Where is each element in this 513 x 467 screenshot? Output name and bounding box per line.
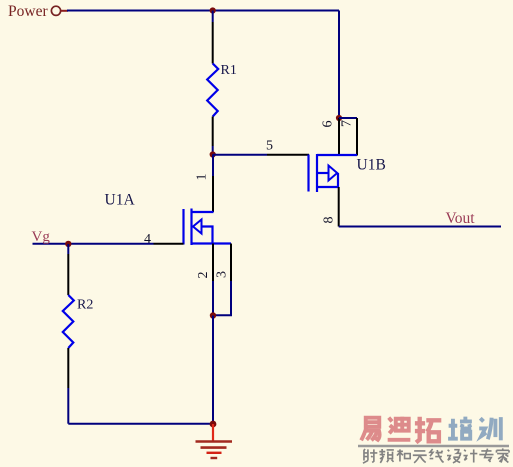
svg-text:Vg: Vg — [32, 229, 51, 245]
watermark logo xun — [479, 417, 501, 440]
transistor U1B source stub top — [317, 154, 357, 156]
wire net 5 — [213, 154, 267, 156]
transistor U1A source stub — [192, 242, 232, 244]
watermark tagline she — [363, 449, 377, 463]
transistor U1B body arrow — [329, 166, 338, 181]
svg-text:3: 3 — [215, 271, 230, 278]
svg-text:1: 1 — [195, 174, 210, 181]
svg-text:7: 7 — [340, 120, 355, 127]
transistor U1A gate bar — [182, 209, 184, 245]
watermark tagline he — [397, 449, 410, 461]
pin 8 U1B drain pin — [338, 187, 340, 227]
wire Vout net — [339, 226, 501, 228]
resistor R2 — [63, 295, 74, 348]
transistor U1A body arrow — [193, 220, 202, 234]
pin 5 U1B gate pin — [267, 154, 309, 156]
svg-text:R1: R1 — [221, 63, 237, 78]
watermark logo pei — [448, 417, 472, 439]
watermark tagline ji — [463, 449, 477, 462]
watermark tagline jia — [496, 448, 509, 462]
watermark tagline pin — [379, 449, 394, 463]
transistor U1B gate bar — [307, 155, 309, 192]
svg-text:5: 5 — [266, 139, 273, 154]
watermark tagline xian — [430, 449, 444, 463]
port Power stub — [61, 10, 68, 12]
wire R1 bottom lead — [212, 117, 214, 147]
wire source down to ground — [212, 316, 214, 424]
ground bar 2 — [201, 446, 227, 449]
junction Vg node — [65, 241, 71, 247]
watermark divider line — [358, 445, 509, 448]
wire pin6 to pin7 — [339, 117, 357, 119]
wire R2 top lead — [67, 244, 69, 254]
svg-text:Vout: Vout — [446, 210, 476, 227]
wire bottom to ground node — [68, 423, 213, 425]
watermark tagline tian — [413, 451, 427, 463]
wire R1 top lead — [212, 11, 214, 23]
junction top rail — [210, 7, 216, 13]
wire top rail Power to corner — [67, 10, 339, 12]
svg-text:U1B: U1B — [357, 157, 386, 174]
watermark logo tuo — [415, 417, 441, 443]
junction node 5 — [210, 151, 216, 157]
svg-text:R2: R2 — [77, 298, 93, 313]
transistor U1B body stub — [317, 172, 329, 174]
pin 3 U1A source2 pin — [230, 244, 232, 282]
svg-text:4: 4 — [144, 232, 151, 247]
wire U1A drain pin 1 — [212, 155, 214, 177]
resistor R1 — [207, 64, 218, 117]
ground bar 1 — [196, 440, 233, 443]
port Power circle terminal — [51, 6, 60, 15]
wire R2 bottom lead — [67, 348, 69, 388]
svg-text:2: 2 — [196, 272, 211, 279]
svg-text:U1A: U1A — [105, 192, 136, 209]
watermark logo yi — [361, 418, 379, 441]
svg-text:Power: Power — [8, 3, 48, 20]
transistor U1B channel bar — [316, 154, 318, 192]
ground stem — [212, 424, 214, 441]
pin 2 U1A source pin — [212, 244, 214, 282]
pin 6 U1B pin — [338, 118, 340, 156]
pin 7 U1B pin — [356, 118, 358, 156]
ground bar 3 — [207, 452, 222, 454]
wire Vg net — [33, 243, 154, 245]
transistor U1B body drop — [337, 173, 339, 187]
transistor U1A drain stub — [192, 211, 214, 213]
transistor U1A body stub — [202, 227, 213, 244]
watermark tagline she2 — [447, 450, 461, 463]
junction source node — [210, 312, 216, 318]
watermark logo di — [388, 417, 411, 440]
pin 4 U1A gate pin — [154, 243, 184, 245]
svg-text:6: 6 — [321, 121, 336, 128]
svg-text:8: 8 — [322, 217, 337, 224]
ground bar 4 — [211, 457, 218, 459]
transistor U1B drain stub bottom — [317, 186, 339, 188]
watermark tagline zhuan — [479, 449, 493, 462]
junction ground node — [210, 421, 217, 428]
junction U1B supply node — [336, 115, 342, 121]
transistor U1A channel bar — [190, 209, 192, 246]
wire right drop to U1B node — [338, 11, 340, 119]
wire pin3 loop — [213, 281, 231, 315]
